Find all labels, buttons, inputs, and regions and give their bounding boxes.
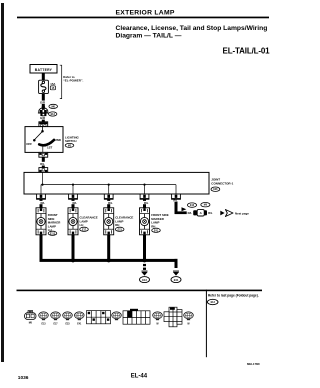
svg-text:15A: 15A [50, 82, 55, 86]
svg-text:R/L: R/L [108, 201, 113, 205]
svg-text:E23: E23 [118, 229, 123, 231]
svg-text:R/L: R/L [40, 201, 45, 205]
svg-text:LH: LH [80, 223, 84, 227]
svg-text:1036: 1036 [18, 375, 29, 381]
svg-text:BATTERY: BATTERY [35, 68, 53, 72]
svg-text:E13: E13 [41, 323, 46, 325]
svg-text:EL-44: EL-44 [131, 373, 148, 379]
svg-text:2ND: 2ND [55, 138, 61, 142]
svg-text:EL-TAIL/L-01: EL-TAIL/L-01 [223, 46, 271, 55]
svg-text:E13: E13 [51, 113, 56, 116]
svg-text:E13: E13 [142, 278, 147, 282]
svg-text:E17: E17 [53, 323, 58, 325]
svg-text:G/R: G/R [40, 100, 45, 104]
svg-text:OFF: OFF [26, 142, 32, 146]
svg-text:1ST: 1ST [47, 146, 53, 150]
svg-text:E23: E23 [65, 323, 70, 325]
svg-text:E28: E28 [213, 189, 218, 191]
svg-text:W: W [156, 323, 159, 325]
svg-text:G/R: G/R [40, 116, 45, 120]
svg-text:Next page: Next page [235, 212, 249, 216]
svg-text:E41: E41 [154, 229, 159, 232]
svg-text:EXTERIOR LAMP: EXTERIOR LAMP [116, 9, 175, 16]
svg-text:Diagram — TAIL/L —: Diagram — TAIL/L — [116, 32, 182, 39]
svg-text:Refer to last page (Foldout pa: Refer to last page (Foldout page). [208, 293, 259, 297]
svg-text:SWITCH: SWITCH [65, 139, 76, 143]
svg-text:R/L: R/L [208, 211, 213, 215]
svg-text:E13: E13 [211, 301, 216, 304]
svg-text:M6: M6 [51, 105, 55, 108]
svg-text:E112: E112 [50, 233, 56, 235]
svg-text:E13: E13 [190, 205, 195, 207]
svg-text:E17: E17 [82, 229, 87, 231]
svg-text:“EL-POWER”.: “EL-POWER”. [63, 79, 83, 83]
svg-text:R/L: R/L [144, 201, 149, 205]
svg-text:Clearance, License, Tail and S: Clearance, License, Tail and Stop Lamps/… [116, 25, 268, 32]
svg-text:MEL178D: MEL178D [247, 362, 260, 366]
svg-text:RH: RH [115, 223, 119, 227]
svg-text:E41: E41 [174, 278, 179, 282]
svg-text:M6: M6 [29, 322, 33, 324]
svg-text:R/L: R/L [72, 201, 77, 205]
svg-text:RH: RH [151, 224, 155, 228]
svg-text:W: W [187, 323, 190, 325]
svg-text:R/L: R/L [188, 211, 193, 215]
svg-text:E41: E41 [77, 322, 82, 325]
svg-text:CONNECTOR-1: CONNECTOR-1 [211, 182, 233, 186]
